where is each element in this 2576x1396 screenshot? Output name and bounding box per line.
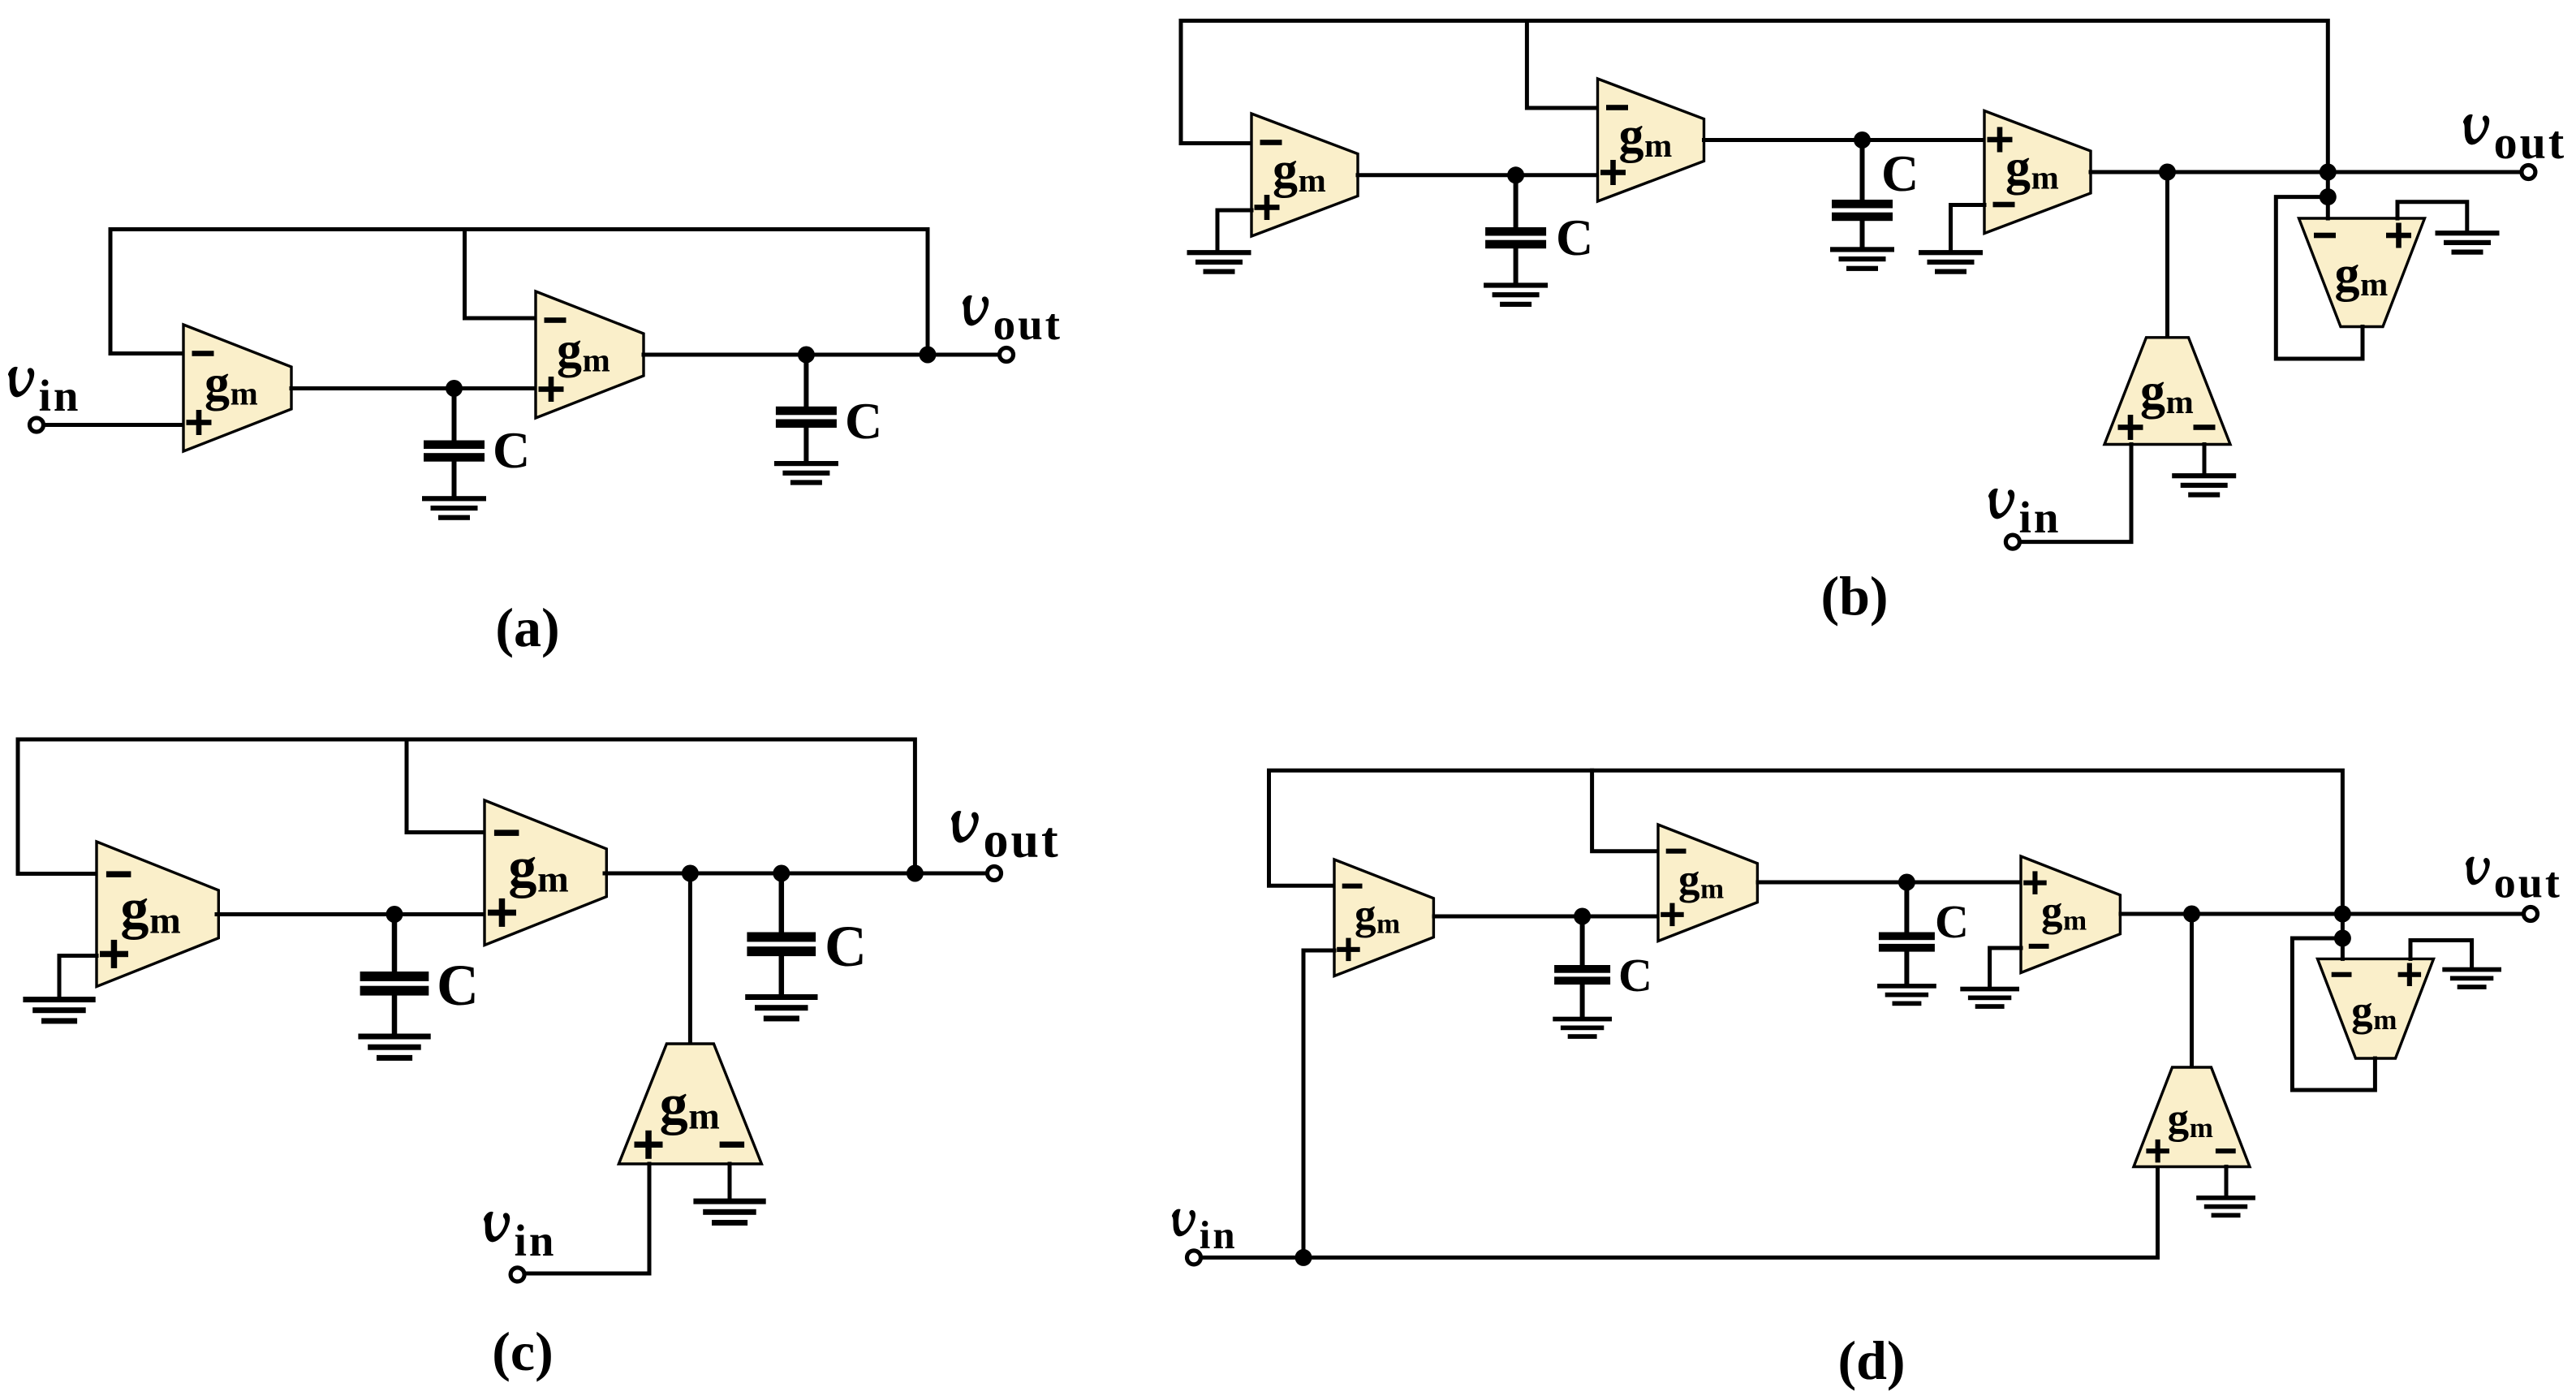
svg-text:m: m: [537, 860, 569, 901]
wire: C2 to ground (a): [803, 427, 808, 462]
op-amp U5 (b) gm: [1984, 111, 2091, 234]
svg-text:C: C: [845, 392, 882, 450]
wire: node K to capacitor C8 (d): [1904, 882, 1909, 933]
capacitor C1 (a): [424, 441, 485, 450]
wire: U2 output to vout (a): [644, 353, 999, 357]
svg-text:m: m: [583, 342, 610, 379]
node H junction (c): [682, 865, 699, 882]
wire: vin to U6 non-inverting input (b): [2020, 445, 2131, 542]
svg-text:m: m: [1376, 907, 1400, 939]
node E junction (b): [2159, 164, 2176, 181]
wire: node L down to U14 output (d): [2190, 914, 2194, 1068]
wire: node A to capacitor C1 (a): [452, 389, 457, 442]
ground (b U6-): [2172, 473, 2236, 478]
label vout (b): [2463, 114, 2566, 169]
op-amp U12 (d) gm: [1658, 825, 1757, 941]
wire: feedback branch to U4 inverting input (b): [1527, 21, 1597, 109]
wire: U1 output to U2 non-inverting input (a): [291, 386, 536, 390]
wire: U4 output to U5 non-inverting input (b): [1704, 138, 1985, 142]
op-amp U2 (a) gm: [536, 291, 644, 418]
svg-text:g: g: [2335, 247, 2360, 302]
op-amp U14 (d) gm: [2134, 1067, 2250, 1167]
op-amp U13 (d) gm: [2021, 856, 2120, 973]
svg-text:m: m: [1700, 872, 1724, 904]
ground (d C7): [1553, 1017, 1612, 1022]
label vout (c): [951, 811, 1061, 868]
node vin terminal (b): [2005, 535, 2019, 549]
label vin (a): [8, 367, 81, 420]
svg-text:g: g: [2041, 888, 2063, 935]
node vin junction (d): [1295, 1249, 1312, 1266]
node vin terminal (c): [510, 1268, 524, 1282]
capacitor C2 (a): [776, 407, 837, 416]
wire: vin to U1 non-inverting input (a): [44, 423, 183, 427]
wire: U3 output to U4 non-inverting input (b): [1358, 173, 1598, 177]
ground (b U5-): [1919, 250, 1983, 255]
svg-text:g: g: [2140, 364, 2165, 420]
wire: node C to capacitor C3 (b): [1514, 175, 1518, 228]
wire: U12 output to U13 non-inverting input (d): [1758, 881, 2021, 885]
svg-text:g: g: [1355, 891, 1376, 938]
node vin terminal (a): [30, 418, 44, 432]
wire: U7 output feedback to inverting input (b): [2276, 197, 2363, 359]
capacitor C8 (d): [1879, 933, 1935, 941]
node K junction (d): [1898, 874, 1915, 891]
ground (c C5): [358, 1034, 430, 1040]
node vin terminal (d): [1187, 1251, 1201, 1265]
wire: vout into U15 inverting input (d): [2341, 914, 2345, 959]
node vout terminal (a): [1000, 348, 1014, 362]
svg-text:C: C: [1556, 209, 1593, 266]
wire: U10 inverting input to ground (c): [728, 1164, 732, 1200]
ground (b C4): [1830, 247, 1894, 252]
svg-text:C: C: [493, 421, 530, 479]
node C junction (b): [1507, 166, 1524, 183]
wire: U9 output to vout (c): [605, 872, 987, 876]
wire: node G to capacitor C5 (c): [392, 915, 398, 973]
svg-text:m: m: [2031, 159, 2059, 196]
svg-text:in: in: [515, 1216, 557, 1265]
svg-text:g: g: [1678, 856, 1700, 903]
wire: vout feedback to U11 inverting input (d): [1269, 770, 2343, 914]
wire: C6 to ground (c): [779, 956, 785, 996]
svg-text:m: m: [230, 375, 258, 412]
wire: U5 output to vout (b): [2091, 170, 2525, 174]
wire: C8 to ground (d): [1904, 951, 1909, 985]
svg-text:C: C: [825, 914, 867, 979]
svg-text:m: m: [2190, 1112, 2213, 1144]
ground (d U15+): [2442, 967, 2501, 972]
wire: U14 inverting input to ground (d): [2225, 1167, 2229, 1197]
node M junction (d): [2334, 930, 2351, 947]
svg-text:m: m: [2360, 265, 2388, 303]
wire: node I to capacitor C6 (c): [779, 873, 785, 933]
op-amp U7 (b) gm: [2299, 218, 2425, 327]
op-amp U10 (c) gm: [618, 1044, 761, 1164]
svg-text:g: g: [205, 356, 230, 411]
svg-text:C: C: [1881, 144, 1919, 202]
wire: C4 to ground (b): [1860, 221, 1865, 248]
wire: vout into U7 inverting input (b): [2326, 172, 2330, 218]
op-amp U4 (b) gm: [1598, 79, 1704, 201]
wire: U8 non-inverting input to ground (c): [59, 956, 97, 998]
svg-text:C: C: [1935, 895, 1969, 948]
ground (a C2): [774, 461, 838, 466]
svg-text:g: g: [2005, 140, 2031, 196]
wire: U15 output feedback to inverting input (d): [2292, 938, 2375, 1090]
svg-text:m: m: [2063, 904, 2087, 936]
node vout terminal (c): [988, 867, 1002, 881]
node vout junction (d): [2334, 906, 2351, 923]
svg-text:g: g: [120, 878, 149, 941]
node vout terminal (d): [2524, 907, 2538, 921]
wire: C7 to ground (d): [1580, 985, 1585, 1018]
svg-text:m: m: [2373, 1004, 2397, 1036]
svg-text:(c): (c): [492, 1321, 553, 1382]
wire: vin bottom rail to U13 non-inverting input (d): [1201, 1167, 2158, 1258]
svg-text:in: in: [39, 371, 81, 420]
wire: U6 inverting input to ground (b): [2203, 445, 2207, 475]
wire: C5 to ground (c): [392, 995, 398, 1035]
capacitor C7 (d): [1554, 965, 1610, 973]
wire: U3 non-inverting input to ground (b): [1217, 210, 1251, 251]
wire: U5 inverting input to ground (b): [1951, 205, 1985, 252]
node F junction (b): [2320, 188, 2337, 205]
label vin (c): [484, 1212, 557, 1265]
op-amp U3 (b) gm: [1251, 114, 1358, 236]
svg-text:C: C: [437, 953, 479, 1018]
node D junction (b): [1854, 131, 1871, 149]
node vout junction (a): [920, 347, 937, 364]
ground (c U10-): [693, 1199, 765, 1204]
wire: vout feedback to U3 inverting input (b): [1181, 21, 2328, 173]
node I junction (c): [773, 865, 790, 882]
wire: feedback branch to U12 inverting input (d): [1592, 770, 1658, 851]
wire: node D to capacitor C4 (b): [1860, 140, 1865, 201]
ground (b C3): [1484, 282, 1548, 287]
svg-text:g: g: [1273, 143, 1298, 198]
wire: U15 non-inverting input to ground (d): [2410, 941, 2472, 968]
wire: U7 non-inverting input to ground (b): [2397, 202, 2467, 231]
svg-text:(a): (a): [495, 597, 559, 658]
ground (a C1): [422, 496, 486, 501]
svg-text:g: g: [1619, 108, 1644, 163]
wire: node H down to U10 output (c): [688, 873, 692, 1045]
op-amp U15 (d) gm: [2318, 959, 2434, 1058]
wire: U13 inverting input to ground (d): [1990, 948, 2021, 988]
label vin (b): [1988, 489, 2061, 542]
wire: node E down to U6 output (b): [2165, 172, 2169, 338]
label vin (d): [1172, 1209, 1238, 1257]
op-amp U11 (d) gm: [1334, 860, 1433, 976]
capacitor C6 (c): [747, 933, 816, 942]
ground (b U7+): [2436, 231, 2500, 235]
capacitor C5 (c): [360, 972, 429, 981]
op-amp U8 (c) gm: [97, 842, 218, 987]
node B junction (a): [798, 347, 815, 364]
op-amp U1 (a) gm: [183, 325, 291, 451]
svg-text:m: m: [1644, 127, 1672, 164]
node G junction (c): [386, 906, 403, 923]
svg-text:g: g: [2168, 1096, 2190, 1143]
svg-text:out: out: [2494, 116, 2567, 169]
svg-text:m: m: [1299, 162, 1326, 199]
svg-text:in: in: [1200, 1213, 1238, 1257]
ground (b U3+): [1187, 250, 1251, 255]
svg-text:out: out: [984, 813, 1061, 868]
node J junction (d): [1574, 908, 1591, 925]
node vout junction (c): [907, 865, 924, 882]
op-amp U6 (b) gm: [2104, 338, 2230, 445]
ground (d C8): [1877, 984, 1936, 989]
svg-text:m: m: [688, 1097, 720, 1138]
svg-text:g: g: [557, 323, 582, 378]
svg-text:m: m: [2166, 383, 2194, 420]
wire: vout feedback to U1 inverting input (a): [110, 230, 928, 355]
ground (d U14-): [2196, 1196, 2255, 1200]
svg-text:m: m: [149, 901, 181, 942]
op-amp U9 (c) gm: [485, 800, 606, 946]
wire: C3 to ground (b): [1514, 248, 1518, 284]
node vout terminal (b): [2522, 166, 2535, 179]
svg-text:C: C: [1618, 949, 1652, 1002]
ground (c C6): [745, 994, 817, 1000]
svg-text:out: out: [2494, 859, 2562, 907]
ground (c U8+): [23, 997, 95, 1002]
label vout (a): [963, 295, 1062, 349]
svg-text:out: out: [993, 299, 1062, 349]
svg-text:g: g: [508, 837, 536, 899]
wire: vin rise to U11 non-inverting input (d): [1303, 950, 1334, 1257]
svg-text:(d): (d): [1837, 1329, 1905, 1391]
wire: U13 output to vout (d): [2121, 912, 2527, 916]
capacitor C3 (b): [1485, 227, 1546, 236]
wire: node B to capacitor C2 (a): [803, 355, 808, 407]
wire: feedback branch to U9 inverting input (c): [407, 739, 485, 833]
wire: vout feedback to U8 inverting input (c): [18, 739, 915, 874]
node vout junction (b): [2320, 164, 2337, 181]
svg-text:g: g: [2351, 988, 2373, 1035]
ground (d U13-): [1960, 987, 2019, 992]
wire: feedback branch to U2 inverting input (a): [465, 230, 536, 319]
svg-text:(b): (b): [1820, 565, 1888, 627]
wire: U11 output to U12 non-inverting input (d): [1434, 915, 1658, 919]
wire: C1 to ground (a): [452, 461, 457, 497]
label vout (d): [2466, 857, 2562, 907]
wire: U8 output to U9 non-inverting input (c): [217, 912, 485, 916]
capacitor C4 (b): [1832, 200, 1893, 209]
svg-text:in: in: [2019, 493, 2061, 542]
svg-text:g: g: [660, 1074, 688, 1136]
wire: node J to capacitor C7 (d): [1580, 916, 1585, 966]
wire: vin to U10 non-inverting input (c): [525, 1164, 649, 1273]
node L junction (d): [2183, 906, 2200, 923]
node A junction (a): [446, 380, 463, 397]
